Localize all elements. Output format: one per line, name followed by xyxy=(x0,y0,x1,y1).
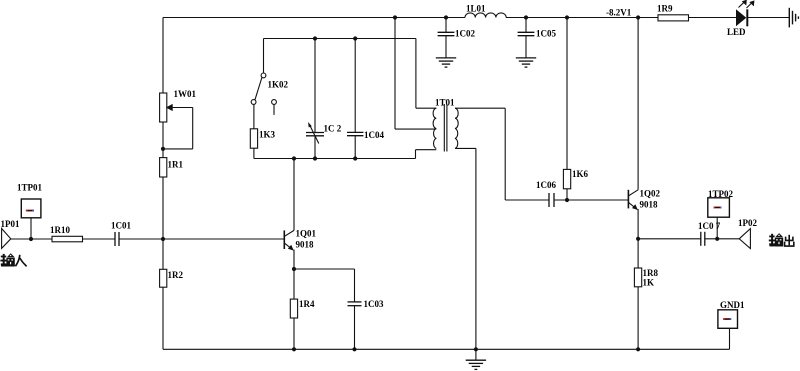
node tank bottom collector xyxy=(292,156,296,160)
node tank bottom 1C2 xyxy=(313,156,317,160)
variable capacitor 1C2 xyxy=(306,39,342,159)
capacitor 1C06 xyxy=(536,180,556,207)
port 1P01 (input) xyxy=(1,219,20,248)
switch 1K02 xyxy=(251,73,288,115)
svg-text:1R2: 1R2 xyxy=(168,270,184,280)
node secondary ground junction xyxy=(474,347,478,351)
secondary top lead xyxy=(455,107,505,109)
capacitor 1C05 xyxy=(518,18,557,58)
svg-text:1C06: 1C06 xyxy=(536,180,556,190)
primary winding xyxy=(433,108,436,148)
svg-text:1R9: 1R9 xyxy=(657,4,673,14)
resistor 1R1 xyxy=(160,158,184,177)
ground under 1C05 xyxy=(516,58,536,67)
node tank bottom 1C04 xyxy=(353,156,357,160)
svg-text:1C 2: 1C 2 xyxy=(324,124,342,134)
svg-text:1R8: 1R8 xyxy=(643,268,659,278)
transformer 1T01 xyxy=(393,15,505,151)
label 输出 (output) xyxy=(769,233,794,246)
test point 1TP01 xyxy=(17,183,43,242)
wire 1C06 to base 1Q02 xyxy=(554,199,628,201)
test point 1TP02 xyxy=(708,189,734,239)
svg-text:9018: 9018 xyxy=(640,200,659,210)
svg-text:1L01: 1L01 xyxy=(466,4,486,14)
transistor 1Q01 xyxy=(284,159,316,270)
LED D1 xyxy=(727,0,754,37)
svg-text:1Q01: 1Q01 xyxy=(296,229,317,239)
svg-text:1R10: 1R10 xyxy=(50,225,70,235)
wire 1W01 wiper loop xyxy=(172,107,193,109)
svg-text:9018: 9018 xyxy=(296,240,315,250)
svg-text:1K6: 1K6 xyxy=(572,169,589,179)
node wiper junction xyxy=(161,147,165,151)
wire input base line xyxy=(11,238,52,240)
switch arm xyxy=(255,78,262,100)
svg-text:GND1: GND1 xyxy=(720,300,745,310)
node mid tap on rail xyxy=(393,15,397,19)
svg-text:1C02: 1C02 xyxy=(455,28,475,38)
node 1K6 bottom junction xyxy=(565,198,569,202)
ground box GND1 xyxy=(718,300,745,328)
wire 1Q02 emitter to output xyxy=(638,238,701,240)
wire top supply rail mid segment (inductor to resistor) xyxy=(506,17,658,19)
port 1P02 (output) xyxy=(738,218,757,249)
secondary bottom lead xyxy=(455,147,476,149)
wire top rail resistor-to-LED segment xyxy=(689,17,737,19)
svg-text:1P02: 1P02 xyxy=(738,218,757,228)
node 1Q02 emitter junction xyxy=(636,237,640,241)
node 1Q02 collector on rail xyxy=(636,15,640,19)
wire collector 1Q02 xyxy=(637,18,639,190)
capacitor 1C03 xyxy=(294,269,384,349)
svg-text:1T01: 1T01 xyxy=(435,98,455,108)
node 1C02 on rail xyxy=(444,15,448,19)
svg-text:1C01: 1C01 xyxy=(111,221,131,231)
svg-text:1R4: 1R4 xyxy=(299,299,315,309)
svg-text:1K3: 1K3 xyxy=(259,130,276,140)
svg-text:1W01: 1W01 xyxy=(174,89,197,99)
wire secondary bottom to ground rail xyxy=(475,148,477,360)
resistor 1R9 xyxy=(657,4,689,21)
wire GND1 drop xyxy=(729,328,731,349)
svg-text:1C04: 1C04 xyxy=(364,130,384,140)
wire mid tap drop from rail xyxy=(394,18,396,130)
node tank top 1C2 xyxy=(313,36,317,40)
wire 1TP01 stub xyxy=(30,218,32,239)
wire collector 1Q01 xyxy=(293,159,295,231)
node tank top 1C04 xyxy=(353,36,357,40)
svg-text:LED: LED xyxy=(727,27,746,37)
wire secondary to 1C06 xyxy=(504,108,506,200)
wire top rail LED-to-ground segment xyxy=(748,17,790,19)
LED arrows xyxy=(739,0,754,8)
emitter 1Q02 xyxy=(629,203,637,209)
svg-text:1P01: 1P01 xyxy=(1,219,20,229)
1C2 arrow xyxy=(309,125,318,144)
resistor 1R8 xyxy=(634,239,658,349)
node input junction xyxy=(29,237,33,241)
primary top lead xyxy=(416,107,436,109)
wire 1TP02 stub xyxy=(716,217,718,239)
inductor 1L01 xyxy=(465,4,506,18)
node 1R4 bottom xyxy=(292,347,296,351)
resistor 1R10 xyxy=(50,225,83,242)
ground symbol (bottom rail) xyxy=(466,360,486,369)
ground (LED, rotated) xyxy=(789,8,798,28)
node output junction xyxy=(715,237,719,241)
node base/rail junction xyxy=(161,237,165,241)
wire top supply rail left segment xyxy=(163,17,465,19)
label 输入 (input) xyxy=(0,253,26,266)
svg-text:1K: 1K xyxy=(643,278,655,288)
secondary winding xyxy=(455,108,458,148)
transistor 1Q02 xyxy=(628,18,660,239)
emitter 1Q01 xyxy=(285,243,293,249)
capacitor 1C04 xyxy=(347,39,384,159)
node 1C05 on rail xyxy=(524,15,528,19)
potentiometer 1W01 xyxy=(160,89,197,151)
svg-text:1C05: 1C05 xyxy=(536,28,556,38)
svg-text:1TP01: 1TP01 xyxy=(17,183,43,193)
svg-text:1C03: 1C03 xyxy=(364,299,384,309)
capacitor 1C01 xyxy=(111,221,131,247)
wire tank bottom xyxy=(254,158,416,160)
base bar 1Q02 xyxy=(627,190,629,209)
wire left rail (vertical) xyxy=(162,18,164,94)
ground under 1C02 xyxy=(436,58,456,67)
svg-text:1K02: 1K02 xyxy=(268,80,289,90)
capacitor 1C07 xyxy=(698,221,721,246)
svg-text:1R1: 1R1 xyxy=(168,160,184,170)
resistor 1R4 xyxy=(290,269,315,349)
svg-text:-8.2V1: -8.2V1 xyxy=(606,8,632,18)
core lines xyxy=(443,104,445,152)
svg-text:1Q02: 1Q02 xyxy=(640,189,661,199)
node 1C03 bottom xyxy=(352,347,356,351)
resistor 1R2 xyxy=(160,269,184,287)
base bar 1Q01 xyxy=(283,230,285,249)
node 1R8 bottom xyxy=(636,347,640,351)
wire tank top xyxy=(264,38,416,40)
primary mid tap xyxy=(395,128,436,130)
capacitor 1C02 xyxy=(438,18,476,58)
node 1K6 on rail xyxy=(565,15,569,19)
resistor 1K6 xyxy=(563,18,588,201)
resistor 1K3 xyxy=(250,105,275,159)
svg-text:1TP02: 1TP02 xyxy=(708,189,734,199)
primary bottom lead xyxy=(416,149,437,151)
wire NC stub xyxy=(273,105,275,115)
wire bottom ground rail xyxy=(163,348,730,350)
node emitter junction 1Q01 xyxy=(292,267,296,271)
